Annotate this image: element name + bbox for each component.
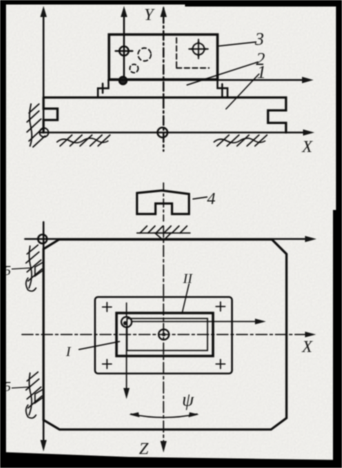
corner circle <box>38 235 47 244</box>
leader II <box>182 284 189 314</box>
fixture 2 top line and X' arrow <box>109 77 314 84</box>
plus mark bottom-right <box>216 360 225 369</box>
left support hinge <box>27 104 49 147</box>
center circle <box>159 329 169 339</box>
ground hatching left <box>57 135 110 146</box>
tool 4 axis <box>163 183 165 221</box>
leader 5 upper <box>12 268 30 269</box>
svg-text:Z: Z <box>139 439 149 458</box>
svg-text:4: 4 <box>207 189 216 208</box>
svg-text:5: 5 <box>4 264 11 279</box>
top support with hatching <box>137 226 190 241</box>
svg-text:5: 5 <box>4 380 11 395</box>
tool 4 <box>137 191 189 215</box>
svg-text:X: X <box>301 137 313 156</box>
psi rotation arc <box>129 412 199 417</box>
target crosshair <box>189 40 208 59</box>
fixture 2 right clamp <box>218 80 228 98</box>
hole center mark <box>116 46 133 55</box>
svg-text:X: X <box>301 337 313 356</box>
small dashed circle <box>130 64 138 72</box>
arrow Z at bolt <box>123 328 129 400</box>
dashed circle <box>138 48 151 61</box>
left vertical axis (bottom view) <box>40 222 46 452</box>
axis X' top arrow (bottom view) <box>25 236 317 242</box>
fixture 2 left clamp <box>98 80 109 98</box>
axis W left vertical (top view) <box>40 6 47 133</box>
table 1 outline <box>44 98 287 133</box>
bolt axis vertical <box>126 303 128 317</box>
pin axis vertical <box>121 6 128 80</box>
pin circle <box>119 77 127 85</box>
svg-text:1: 1 <box>257 62 266 82</box>
plus mark top-right <box>216 302 225 311</box>
axis Z <box>160 226 166 453</box>
leader 2 <box>187 62 258 85</box>
svg-text:ψ: ψ <box>182 390 195 411</box>
leader 3 <box>219 42 256 46</box>
arrow X at bolt <box>132 319 266 325</box>
svg-text:Y: Y <box>144 5 155 24</box>
pallet plate outline (bottom view) <box>44 240 287 430</box>
support 5 lower <box>26 372 44 418</box>
leader 4 <box>193 197 207 199</box>
svg-text:II: II <box>182 272 194 287</box>
plus mark top-left <box>103 303 112 312</box>
svg-text:3: 3 <box>254 29 264 49</box>
ground hatching right <box>214 135 267 146</box>
support 5 upper <box>26 245 44 291</box>
platform on pallet <box>95 297 232 374</box>
pallet II rect <box>117 313 214 356</box>
workpiece 3 box <box>109 35 218 80</box>
pallet I rect <box>127 319 208 351</box>
plus mark bottom-left <box>103 360 112 369</box>
leader 5 lower <box>12 387 30 388</box>
axis X (top view, baseline) <box>40 129 315 135</box>
pivot circle on baseline <box>158 128 168 138</box>
axis X (bottom view) <box>22 332 316 338</box>
axis Y <box>160 6 167 151</box>
leader 1 <box>226 74 259 109</box>
bolt circle <box>121 317 131 327</box>
hidden contour L dashed <box>177 38 210 68</box>
leader I <box>79 342 120 350</box>
